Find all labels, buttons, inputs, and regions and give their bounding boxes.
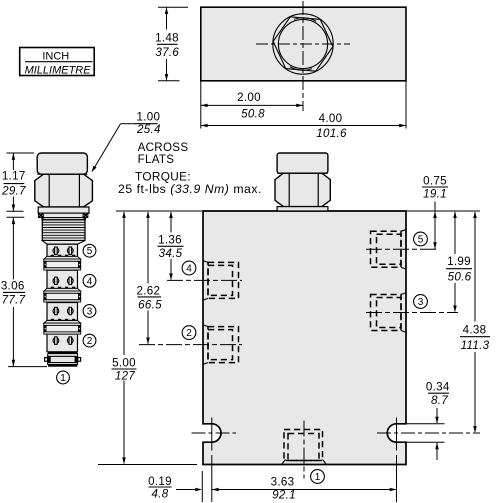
svg-text:2: 2 xyxy=(87,336,93,347)
svg-text:3.06: 3.06 xyxy=(1,279,25,292)
svg-text:4.38: 4.38 xyxy=(463,324,487,337)
svg-text:5: 5 xyxy=(418,235,424,246)
svg-text:1: 1 xyxy=(60,373,66,384)
svg-text:1.00: 1.00 xyxy=(137,110,161,123)
svg-text:34.5: 34.5 xyxy=(159,247,183,260)
svg-text:0.75: 0.75 xyxy=(423,174,447,187)
svg-text:50.8: 50.8 xyxy=(241,107,265,120)
svg-text:5.00: 5.00 xyxy=(112,357,136,370)
svg-text:4.8: 4.8 xyxy=(151,488,168,501)
svg-text:4: 4 xyxy=(186,264,192,275)
svg-text:37.6: 37.6 xyxy=(155,46,179,59)
svg-text:8.7: 8.7 xyxy=(431,394,448,407)
svg-text:4: 4 xyxy=(87,276,93,287)
svg-text:3: 3 xyxy=(87,307,93,318)
svg-text:127: 127 xyxy=(115,370,135,383)
svg-text:101.6: 101.6 xyxy=(316,127,347,140)
svg-text:25 ft-lbs (33.9 Nm) max.: 25 ft-lbs (33.9 Nm) max. xyxy=(118,182,262,196)
svg-text:77.7: 77.7 xyxy=(2,294,26,307)
svg-text:MILLIMETRE: MILLIMETRE xyxy=(25,64,92,76)
svg-text:4.00: 4.00 xyxy=(319,112,343,125)
svg-text:92.1: 92.1 xyxy=(272,488,296,501)
svg-text:1.99: 1.99 xyxy=(447,255,471,268)
svg-text:25.4: 25.4 xyxy=(136,123,161,136)
svg-text:2.00: 2.00 xyxy=(237,91,261,104)
svg-text:1: 1 xyxy=(315,472,321,483)
svg-text:3.63: 3.63 xyxy=(271,476,295,489)
svg-text:FLATS: FLATS xyxy=(138,153,175,166)
svg-text:1.48: 1.48 xyxy=(155,32,179,45)
svg-text:0.19: 0.19 xyxy=(148,475,172,488)
svg-text:2: 2 xyxy=(186,328,192,339)
svg-text:1.17: 1.17 xyxy=(2,170,26,183)
svg-text:19.1: 19.1 xyxy=(423,188,447,201)
svg-text:3: 3 xyxy=(418,297,424,308)
svg-text:111.3: 111.3 xyxy=(461,339,490,352)
svg-text:5: 5 xyxy=(87,246,93,257)
svg-text:1.36: 1.36 xyxy=(158,234,182,247)
svg-text:2.62: 2.62 xyxy=(137,284,161,297)
svg-text:INCH: INCH xyxy=(42,50,69,62)
svg-text:66.5: 66.5 xyxy=(138,299,162,312)
svg-text:29.7: 29.7 xyxy=(1,185,26,198)
svg-text:50.6: 50.6 xyxy=(448,271,472,284)
svg-text:0.34: 0.34 xyxy=(426,380,450,393)
